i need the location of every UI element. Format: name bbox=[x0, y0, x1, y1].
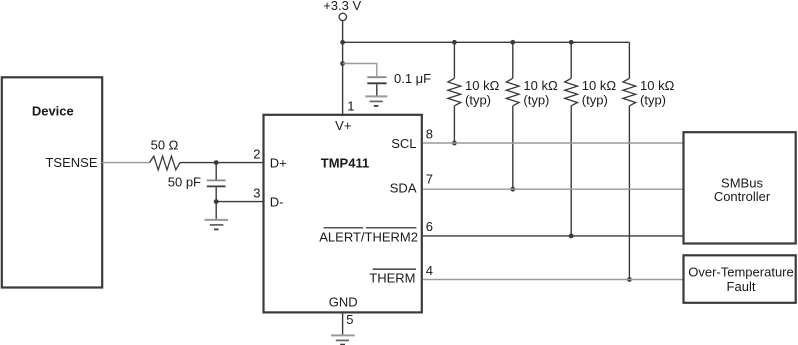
junction node D+ bbox=[214, 160, 219, 165]
svg-text:TMP411: TMP411 bbox=[321, 156, 369, 171]
svg-text:Controller: Controller bbox=[714, 189, 771, 204]
over-temperature fault box bbox=[684, 255, 796, 302]
wire THERM bbox=[423, 279, 684, 281]
device box bbox=[2, 77, 102, 287]
wire supply to V+ pin 1 bbox=[342, 21, 344, 115]
svg-text:(typ): (typ) bbox=[523, 92, 549, 107]
junction rail bbox=[340, 40, 345, 45]
wire SCL bbox=[423, 142, 684, 144]
svg-text:2: 2 bbox=[253, 147, 260, 162]
ground (bypass) bbox=[365, 95, 387, 97]
svg-text:10 kΩ: 10 kΩ bbox=[582, 78, 617, 93]
svg-text:3: 3 bbox=[253, 186, 260, 201]
wire resistor to pin D+ bbox=[180, 162, 263, 164]
wire TSENSE to series resistor bbox=[102, 162, 150, 164]
svg-text:ALERT/THERM2: ALERT/THERM2 bbox=[319, 229, 418, 244]
junction node D- bbox=[214, 199, 219, 204]
svg-text:10 kΩ: 10 kΩ bbox=[523, 78, 558, 93]
IC U1 TMP411 box bbox=[264, 115, 422, 313]
svg-text:SDA: SDA bbox=[390, 180, 417, 195]
ground (IC GND pin 5) bbox=[342, 313, 344, 335]
svg-text:10 kΩ: 10 kΩ bbox=[465, 78, 500, 93]
svg-text:Over-Temperature: Over-Temperature bbox=[688, 265, 793, 280]
svg-text:+3.3 V: +3.3 V bbox=[323, 0, 361, 13]
svg-text:THERM: THERM bbox=[369, 271, 415, 286]
svg-text:50 Ω: 50 Ω bbox=[151, 137, 179, 152]
svg-text:Device: Device bbox=[32, 103, 74, 118]
svg-text:7: 7 bbox=[426, 171, 433, 186]
wire ALERT/THERM2 bbox=[423, 235, 684, 237]
svg-text:10 kΩ: 10 kΩ bbox=[640, 78, 675, 93]
svg-text:TSENSE: TSENSE bbox=[45, 155, 97, 170]
wire junction to pin D- bbox=[216, 201, 263, 203]
svg-text:5: 5 bbox=[346, 312, 353, 327]
resistor 50 ohm (series) bbox=[150, 156, 181, 170]
svg-text:50 pF: 50 pF bbox=[168, 174, 201, 189]
wire branch to bypass cap bbox=[343, 64, 377, 77]
capacitor 0.1 uF (bypass) bbox=[367, 76, 386, 78]
svg-text:4: 4 bbox=[426, 263, 433, 278]
svg-text:8: 8 bbox=[426, 127, 433, 142]
pull-up resistor R2 10 kOhm bbox=[506, 40, 558, 192]
svg-text:(typ): (typ) bbox=[465, 92, 491, 107]
svg-text:D-: D- bbox=[270, 195, 284, 210]
SMBus controller box bbox=[684, 132, 796, 243]
svg-text:Fault: Fault bbox=[727, 279, 756, 294]
svg-text:D+: D+ bbox=[270, 156, 287, 171]
capacitor 50 pF bbox=[215, 163, 217, 180]
svg-text:SCL: SCL bbox=[391, 136, 416, 151]
wire SDA bbox=[423, 188, 684, 190]
svg-text:0.1 μF: 0.1 μF bbox=[394, 71, 431, 86]
svg-text:1: 1 bbox=[347, 99, 354, 114]
ground (input filter) bbox=[215, 202, 217, 219]
svg-text:(typ): (typ) bbox=[640, 92, 666, 107]
svg-text:V+: V+ bbox=[335, 118, 351, 133]
pull-up resistor R4 10 kOhm bbox=[623, 42, 675, 282]
svg-text:GND: GND bbox=[329, 294, 358, 309]
pull-up resistor R3 10 kOhm bbox=[565, 40, 617, 238]
power rail wire bbox=[343, 41, 630, 43]
svg-text:(typ): (typ) bbox=[582, 92, 608, 107]
pull-up resistor R1 10 kOhm bbox=[448, 40, 500, 146]
svg-text:6: 6 bbox=[426, 219, 433, 234]
junction bypass branch bbox=[340, 61, 345, 66]
